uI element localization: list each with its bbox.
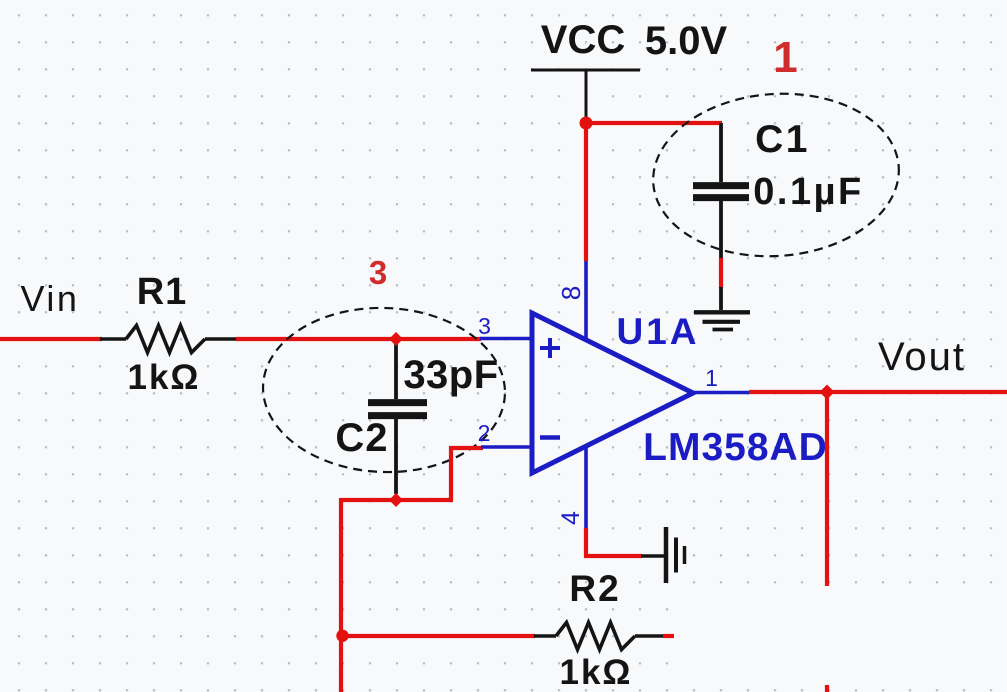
pin 3 stub <box>480 337 534 341</box>
wire Vout down <box>825 392 829 586</box>
resistor R1 <box>100 326 236 353</box>
pin 4 stub <box>584 446 588 528</box>
svg-text:U1A: U1A <box>616 311 699 352</box>
svg-text:Vin: Vin <box>21 278 80 319</box>
svg-text:Vout: Vout <box>878 335 966 379</box>
pin 1 stub <box>693 391 750 395</box>
svg-text:VCC: VCC <box>541 18 625 62</box>
op-amp U1A triangle <box>532 313 693 473</box>
svg-text:1kΩ: 1kΩ <box>128 358 201 397</box>
wire pin 4 to ground <box>586 528 642 556</box>
svg-text:C1: C1 <box>755 118 810 161</box>
wire op-amp output to Vout <box>749 390 1007 394</box>
C1 lead to ground <box>719 287 723 310</box>
wire Vout down lower stub <box>825 685 829 692</box>
svg-text:8: 8 <box>556 286 586 300</box>
junction at Vout node <box>820 385 835 400</box>
svg-text:1: 1 <box>705 365 718 391</box>
ground lead black <box>641 554 664 557</box>
svg-text:1: 1 <box>773 33 797 82</box>
wire R1 to op-amp pin 3 <box>236 337 481 341</box>
svg-text:3: 3 <box>478 313 491 339</box>
capacitor C1 <box>693 123 749 258</box>
junction at R2 left <box>336 630 348 642</box>
svg-text:0.1µF: 0.1µF <box>753 171 863 213</box>
wire to R2 <box>343 634 535 638</box>
junction at VCC node <box>580 117 593 130</box>
R2 right red stub <box>663 634 674 638</box>
highlight ellipse 3 around C2 <box>260 304 508 476</box>
wire VCC to pin 8 <box>584 121 588 261</box>
svg-text:33pF: 33pF <box>403 353 498 397</box>
pin 8 stub <box>584 261 588 341</box>
svg-text:4: 4 <box>557 511 585 525</box>
capacitor C2 <box>368 339 427 494</box>
svg-text:5.0V: 5.0V <box>645 19 728 63</box>
junction at R1/C2/pin3 <box>389 332 403 346</box>
wire VCC to C1 <box>586 121 722 125</box>
svg-text:C2: C2 <box>335 416 388 460</box>
wire C2 bottom to feedback <box>341 448 483 692</box>
wire Vin input <box>0 337 102 341</box>
op-amp minus input marker <box>540 435 560 440</box>
ground at pin 4 (rotated) <box>666 527 685 583</box>
svg-text:R1: R1 <box>137 271 188 313</box>
svg-text:R2: R2 <box>569 568 620 609</box>
wire red segment below C1 <box>719 258 723 288</box>
junction at C2 bottom <box>389 493 403 507</box>
svg-text:2: 2 <box>478 420 491 446</box>
svg-text:1kΩ: 1kΩ <box>560 653 633 692</box>
power VCC symbol <box>531 70 640 120</box>
svg-text:3: 3 <box>369 254 387 291</box>
resistor R2 <box>534 623 664 650</box>
svg-text:LM358AD: LM358AD <box>643 426 828 469</box>
op-amp plus input marker <box>540 338 560 358</box>
highlight ellipse 1 around C1 <box>648 86 905 265</box>
ground under C1 <box>694 312 750 329</box>
pin 2 stub <box>481 445 534 449</box>
